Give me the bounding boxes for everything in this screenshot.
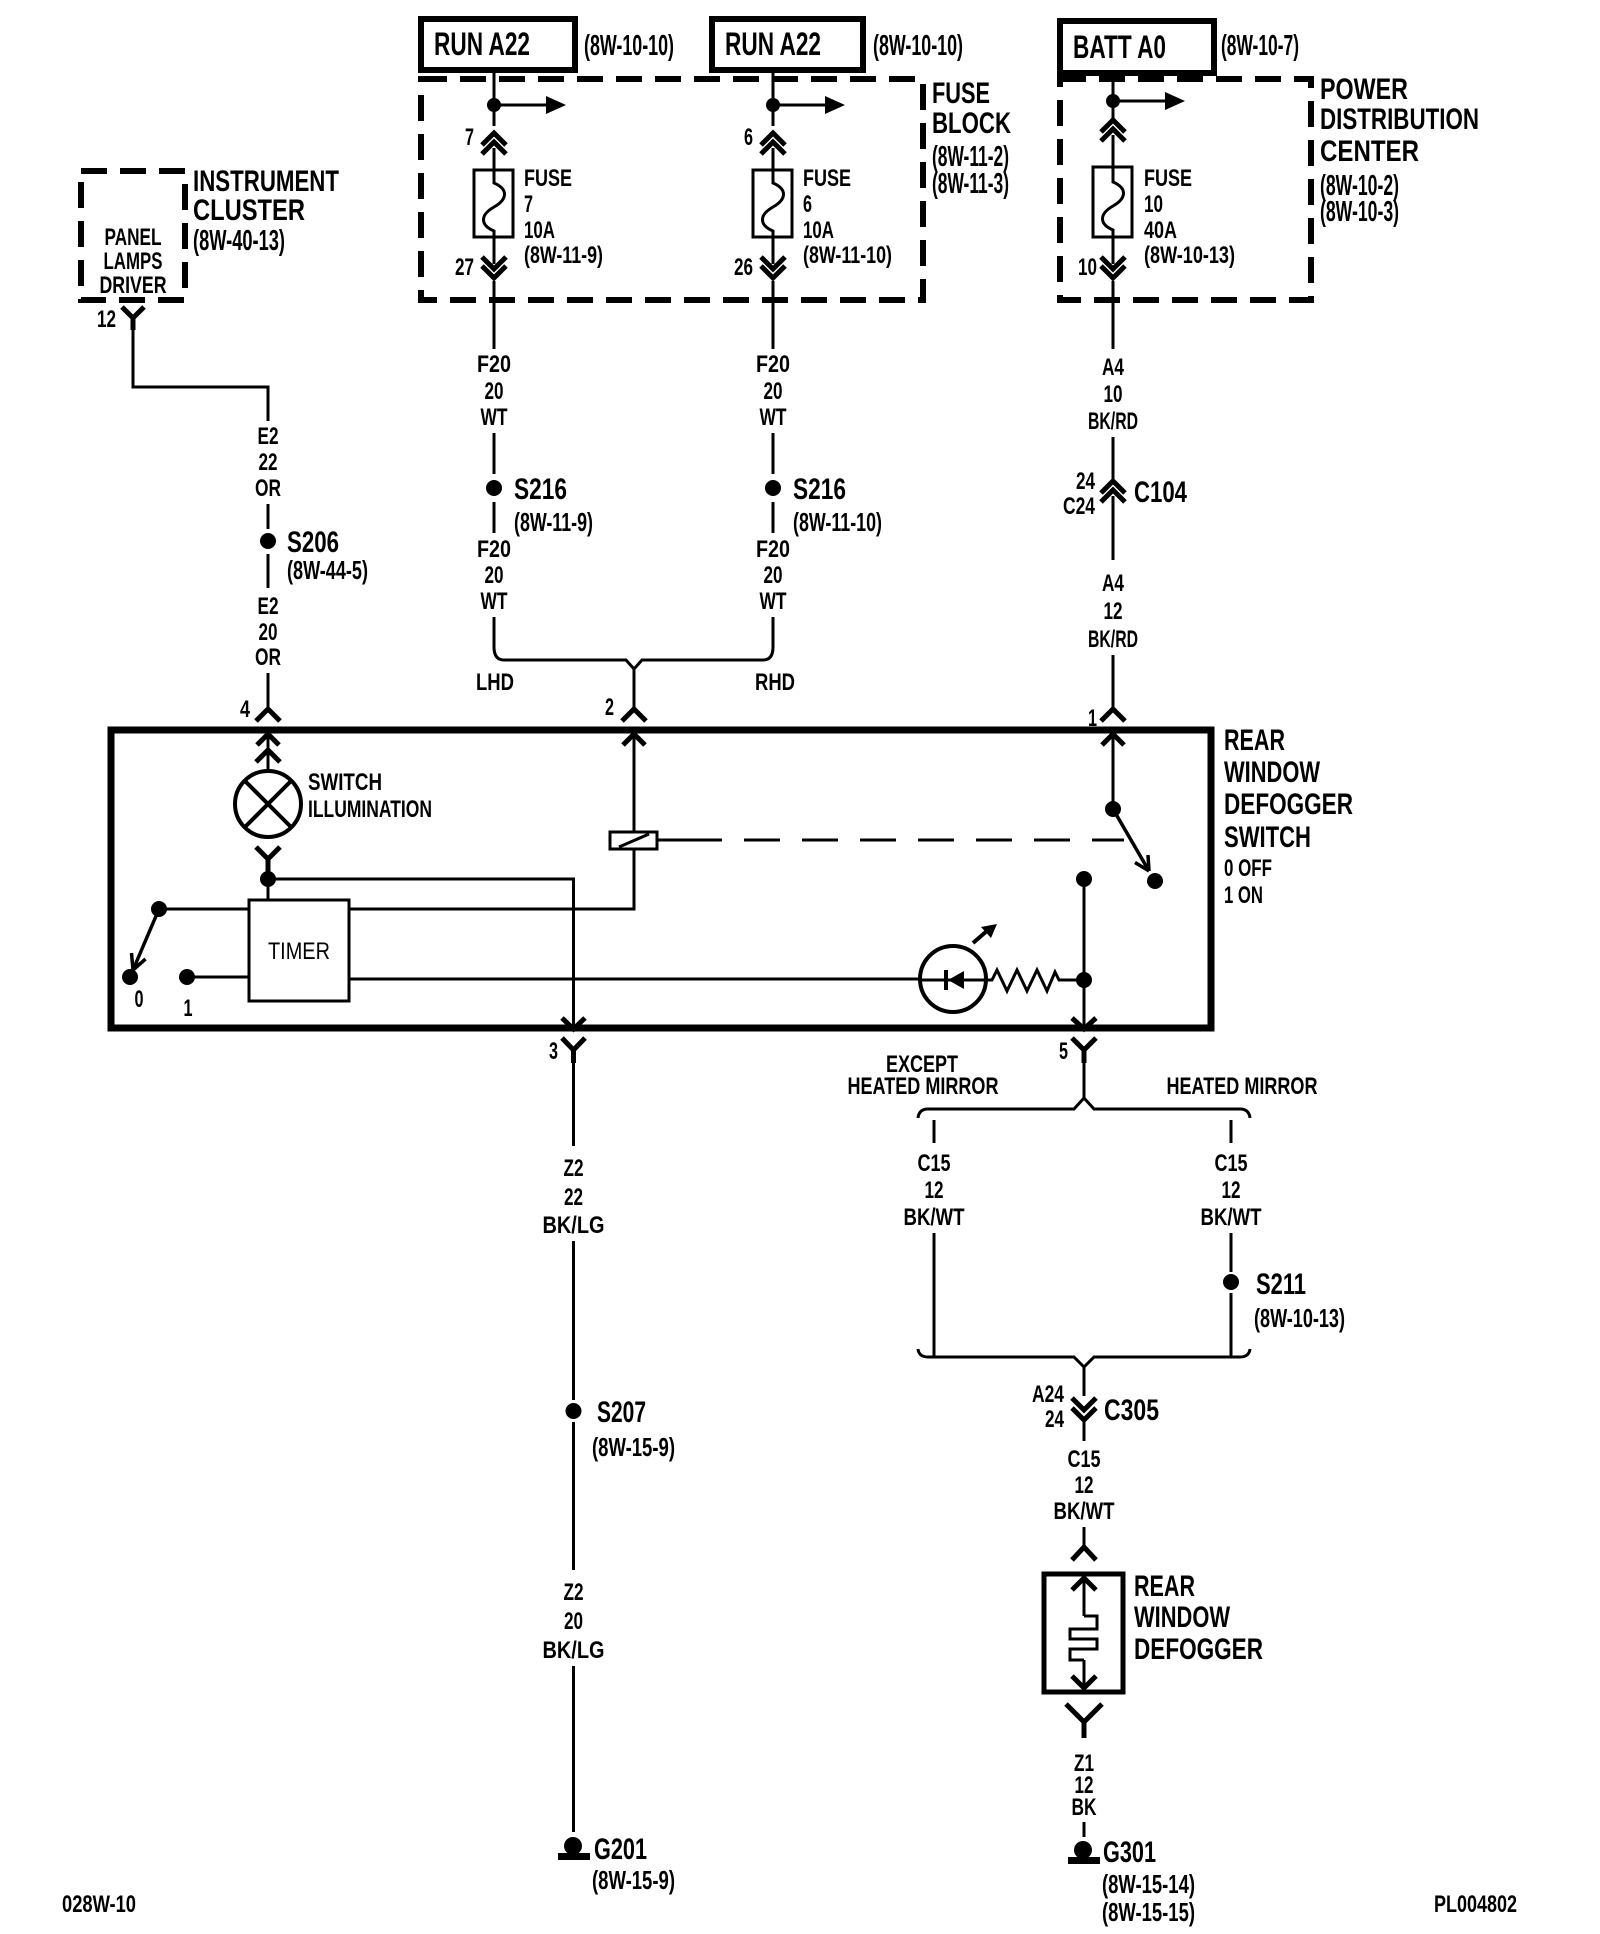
svg-text:Z2: Z2 xyxy=(564,1155,584,1182)
resistor xyxy=(986,970,1084,991)
svg-text:A4: A4 xyxy=(1102,570,1124,597)
connector chevrons pin 6 xyxy=(761,133,785,154)
svg-text:028W-10: 028W-10 xyxy=(62,1891,136,1918)
svg-text:WT: WT xyxy=(760,404,787,431)
defogger switch arm with arrowhead xyxy=(1113,809,1149,871)
svg-text:C104: C104 xyxy=(1134,476,1187,509)
svg-text:20: 20 xyxy=(485,562,504,589)
svg-text:TIMER: TIMER xyxy=(268,938,330,965)
svg-text:F20: F20 xyxy=(477,351,511,378)
wire toggle common to timer xyxy=(159,908,249,911)
svg-text:HEATED MIRROR: HEATED MIRROR xyxy=(1167,1073,1318,1100)
connector C104 xyxy=(1063,468,1187,520)
wire timer output to LED xyxy=(349,978,919,981)
dashed mechanical link to switch arm xyxy=(686,839,1124,842)
wire BATT A0 feed into PDC xyxy=(1112,73,1115,119)
net label A4 12 BK/RD xyxy=(1088,570,1138,653)
svg-text:4: 4 xyxy=(240,696,250,723)
toggle switch common node xyxy=(151,901,167,917)
svg-text:HEATED MIRROR: HEATED MIRROR xyxy=(848,1073,999,1100)
defogger switch contact 1 xyxy=(1147,873,1163,889)
defogger grid outlet arrow xyxy=(1072,1660,1096,1688)
svg-text:F20: F20 xyxy=(756,536,790,563)
wire F20 out of fuse block (left) xyxy=(493,281,496,349)
instrument cluster name label xyxy=(193,165,339,257)
ground G301 (8W-15-14)(8W-15-15) xyxy=(1068,1836,1195,1927)
svg-text:BK/WT: BK/WT xyxy=(1201,1204,1262,1231)
power distribution center name label xyxy=(1320,73,1479,228)
svg-text:0 OFF: 0 OFF xyxy=(1224,855,1272,882)
wire C104 to A4 label xyxy=(1112,496,1115,560)
wire RUN A22 right feed into fuse block xyxy=(772,70,775,126)
svg-text:FUSE: FUSE xyxy=(524,165,572,192)
connector chevrons above fuse 10 xyxy=(1101,120,1125,141)
wire to ground G201 xyxy=(572,1666,575,1832)
svg-text:RHD: RHD xyxy=(755,669,795,696)
connector chevrons pin 27 xyxy=(482,257,506,278)
svg-text:POWER: POWER xyxy=(1320,73,1408,106)
junction node resistor / pin 5 wire xyxy=(1076,972,1092,988)
svg-text:C15: C15 xyxy=(1068,1446,1101,1473)
wire below S216 right xyxy=(772,502,775,533)
svg-text:G201: G201 xyxy=(594,1833,647,1866)
svg-text:1 ON: 1 ON xyxy=(1224,882,1263,909)
wire F20 out of fuse block (right) xyxy=(772,281,775,349)
rear window defogger switch name label xyxy=(1224,724,1353,909)
svg-text:(8W-10-13): (8W-10-13) xyxy=(1254,1303,1345,1333)
svg-text:12: 12 xyxy=(97,306,116,333)
junction node under BATT A0 xyxy=(1106,94,1120,108)
svg-text:6: 6 xyxy=(744,124,753,151)
connector chevrons pin 7 xyxy=(482,133,506,154)
svg-text:FUSE: FUSE xyxy=(1144,165,1192,192)
svg-text:22: 22 xyxy=(564,1184,583,1211)
svg-text:BK/WT: BK/WT xyxy=(904,1204,965,1231)
svg-text:1: 1 xyxy=(184,995,193,1022)
svg-text:BK/LG: BK/LG xyxy=(543,1212,605,1239)
wire stub left branch xyxy=(933,1120,936,1143)
except heated mirror label xyxy=(848,1051,999,1100)
svg-text:10A: 10A xyxy=(524,217,555,244)
pin 5 connector (female Y below box edge) xyxy=(1072,1038,1096,1063)
svg-text:PL004802: PL004802 xyxy=(1434,1891,1517,1918)
svg-text:(8W-15-9): (8W-15-9) xyxy=(592,1865,675,1895)
svg-text:F20: F20 xyxy=(477,536,511,563)
svg-text:CLUSTER: CLUSTER xyxy=(193,194,305,227)
svg-text:(8W-15-9): (8W-15-9) xyxy=(592,1432,675,1462)
svg-text:G301: G301 xyxy=(1103,1836,1156,1869)
wire below S206 xyxy=(267,554,270,588)
svg-text:10: 10 xyxy=(1104,381,1123,408)
svg-text:(8W-10-3): (8W-10-3) xyxy=(1320,196,1399,228)
pin 2 connector (male below box edge) and wire to relay coil xyxy=(623,734,645,832)
connector C305 xyxy=(1032,1381,1159,1433)
svg-text:WT: WT xyxy=(481,404,508,431)
wire A4 out of PDC xyxy=(1112,281,1115,349)
svg-text:WT: WT xyxy=(760,588,787,615)
defogger grid inlet arrow xyxy=(1072,1578,1096,1616)
svg-text:DEFOGGER: DEFOGGER xyxy=(1224,788,1353,821)
wire pin 3 to Z2 label xyxy=(572,1063,575,1146)
svg-text:OR: OR xyxy=(255,475,281,502)
net label A4 10 BK/RD xyxy=(1088,354,1138,435)
toggle contact 0 xyxy=(122,969,138,985)
net label C15 12 BK/WT (right) xyxy=(1201,1150,1262,1231)
svg-text:(8W-11-9): (8W-11-9) xyxy=(524,242,603,269)
wire C305 to C15 label xyxy=(1083,1420,1086,1441)
svg-text:S207: S207 xyxy=(597,1396,646,1429)
svg-text:7: 7 xyxy=(465,124,474,151)
relay coil link stub xyxy=(657,839,686,842)
svg-text:C305: C305 xyxy=(1104,1394,1159,1427)
timer xyxy=(249,900,349,1001)
wire to splice S216 left xyxy=(493,433,496,474)
pin 1 connector (male below box edge) and wire to switch pivot xyxy=(1102,734,1124,803)
svg-text:27: 27 xyxy=(455,254,474,281)
svg-text:12: 12 xyxy=(1075,1472,1094,1499)
toggle contact 1 xyxy=(179,969,195,985)
wire brace to pin 2 xyxy=(633,669,636,709)
svg-text:10A: 10A xyxy=(803,217,834,244)
defogger switch pivot node xyxy=(1105,801,1121,817)
fuse 7 value label xyxy=(524,165,603,269)
wire from pin 12 to E2 net xyxy=(133,330,268,421)
wire right branch to splice S211 xyxy=(1230,1233,1233,1272)
svg-text:DEFOGGER: DEFOGGER xyxy=(1134,1633,1263,1666)
svg-text:(8W-15-15): (8W-15-15) xyxy=(1102,1897,1195,1927)
pin 4 connector (male below box edge) xyxy=(256,734,280,770)
svg-text:7: 7 xyxy=(524,191,533,218)
svg-text:BATT A0: BATT A0 xyxy=(1073,29,1166,65)
svg-text:40A: 40A xyxy=(1144,217,1177,244)
wire to splice S206 xyxy=(267,504,270,529)
wire contact 1 to timer xyxy=(187,976,249,979)
svg-text:3: 3 xyxy=(549,1038,558,1065)
svg-text:RUN A22: RUN A22 xyxy=(725,26,821,62)
svg-text:0: 0 xyxy=(135,986,144,1013)
fuse 10 (40A) xyxy=(1093,167,1132,237)
svg-text:(8W-11-9): (8W-11-9) xyxy=(514,507,593,537)
junction node under RUN A22 left xyxy=(487,98,501,112)
svg-text:FUSE: FUSE xyxy=(932,77,990,110)
switch illumination lamp xyxy=(235,771,301,837)
wire left branch to merge brace xyxy=(933,1233,936,1357)
power feed banner RUN A22 (right) xyxy=(712,19,863,70)
svg-text:10: 10 xyxy=(1078,254,1097,281)
power feed banner RUN A22 (left) xyxy=(421,19,575,70)
wire fuse 7 to chevrons xyxy=(493,237,496,264)
rear window defogger name label xyxy=(1134,1570,1263,1666)
wire to pin 1 xyxy=(1112,655,1115,709)
svg-text:BK/LG: BK/LG xyxy=(543,1637,605,1664)
svg-text:FUSE: FUSE xyxy=(803,165,851,192)
wire chevron to fuse 6 xyxy=(772,148,775,170)
net label Z2 22 BK/LG xyxy=(543,1155,605,1239)
power distribution center (dashed box) xyxy=(1060,79,1311,300)
svg-text:F20: F20 xyxy=(756,351,790,378)
svg-text:WINDOW: WINDOW xyxy=(1224,756,1320,789)
merge brace xyxy=(918,1349,1250,1367)
wire lamp junction to timer xyxy=(267,879,270,900)
instrument cluster (dashed box) xyxy=(81,171,185,300)
svg-text:12: 12 xyxy=(925,1177,944,1204)
svg-text:A4: A4 xyxy=(1102,354,1124,381)
svg-text:(8W-10-7): (8W-10-7) xyxy=(1221,30,1299,62)
svg-text:24: 24 xyxy=(1045,1406,1064,1433)
ground G201 (8W-15-9) xyxy=(558,1833,675,1895)
fuse 10 value label xyxy=(1144,165,1235,269)
LED indicator arrow xyxy=(973,924,997,943)
wire below S211 to merge brace xyxy=(1230,1293,1233,1357)
net label F20 20 WT (lower left) xyxy=(477,536,511,615)
toggle switch arm with arrowhead xyxy=(132,909,160,970)
svg-text:DISTRIBUTION: DISTRIBUTION xyxy=(1320,103,1479,136)
pin 12 connector (female Y) xyxy=(122,307,144,330)
net label Z1 12 BK xyxy=(1072,1750,1097,1821)
svg-text:PANEL: PANEL xyxy=(105,224,162,251)
splice S216 (8W-11-9) xyxy=(486,473,593,537)
svg-text:C24: C24 xyxy=(1063,493,1095,520)
LED indicator xyxy=(920,946,986,1012)
junction node under RUN A22 right xyxy=(766,98,780,112)
svg-text:OR: OR xyxy=(255,644,281,671)
wire RHD leg xyxy=(772,617,775,647)
svg-text:(8W-10-13): (8W-10-13) xyxy=(1144,242,1235,269)
wire to ground G301 xyxy=(1083,1822,1086,1837)
svg-text:20: 20 xyxy=(764,378,783,405)
net label E2 20 OR xyxy=(255,593,281,671)
svg-text:10: 10 xyxy=(1144,191,1163,218)
svg-text:LAMPS: LAMPS xyxy=(104,248,163,275)
svg-text:22: 22 xyxy=(259,449,278,476)
svg-text:5: 5 xyxy=(1059,1038,1068,1065)
svg-text:26: 26 xyxy=(734,254,753,281)
svg-text:REAR: REAR xyxy=(1224,724,1285,757)
svg-text:ILLUMINATION: ILLUMINATION xyxy=(308,796,432,823)
svg-text:CENTER: CENTER xyxy=(1320,135,1419,168)
wire below S216 left xyxy=(493,502,496,533)
pin 4 connector (female above box edge) xyxy=(256,709,280,721)
fuse block (dashed box) xyxy=(421,79,923,300)
wire pin 5 to split brace xyxy=(1083,1063,1086,1098)
net label Z2 20 BK/LG xyxy=(543,1579,605,1664)
svg-text:WINDOW: WINDOW xyxy=(1134,1601,1230,1634)
defogger inlet connector (female) xyxy=(1072,1547,1096,1560)
svg-text:(8W-11-3): (8W-11-3) xyxy=(932,168,1009,200)
svg-text:BLOCK: BLOCK xyxy=(932,107,1011,140)
svg-text:12: 12 xyxy=(1104,598,1123,625)
svg-text:E2: E2 xyxy=(258,593,279,620)
svg-text:LHD: LHD xyxy=(476,669,514,696)
wire switch output to pin 5 xyxy=(1083,879,1086,1028)
net label F20 20 WT (upper right) xyxy=(756,351,790,431)
svg-text:S211: S211 xyxy=(1256,1268,1306,1301)
svg-text:WT: WT xyxy=(481,588,508,615)
svg-text:2: 2 xyxy=(605,694,614,721)
wire chevron to fuse 10 xyxy=(1112,135,1115,167)
svg-text:BK/WT: BK/WT xyxy=(1054,1498,1115,1525)
net label F20 20 WT (lower right) xyxy=(756,536,790,615)
net label F20 20 WT (upper left) xyxy=(477,351,511,431)
wire stub right branch xyxy=(1230,1120,1233,1143)
LHD/RHD merge brace xyxy=(494,647,773,669)
svg-text:S216: S216 xyxy=(514,473,567,506)
wire fuse 6 to chevrons xyxy=(772,237,775,264)
fuse 6 value label xyxy=(803,165,892,269)
relay coil (crossed rectangle) xyxy=(610,832,657,849)
splice S207 (8W-15-9) xyxy=(566,1396,676,1462)
switch illumination label xyxy=(308,769,432,823)
wire timer output to relay coil xyxy=(349,849,634,909)
svg-text:20: 20 xyxy=(764,562,783,589)
svg-text:24: 24 xyxy=(1076,468,1095,495)
defogger outlet connector (female Y) xyxy=(1066,1704,1102,1738)
fuse 6 (10A) xyxy=(753,170,792,237)
svg-text:(8W-40-13): (8W-40-13) xyxy=(193,225,285,257)
net label C15 12 BK/WT (left) xyxy=(904,1150,965,1231)
connector chevrons pin 26 xyxy=(761,257,785,278)
wire to connector C104 xyxy=(1112,437,1115,481)
svg-text:BK: BK xyxy=(1072,1794,1097,1821)
svg-text:S216: S216 xyxy=(793,473,846,506)
svg-text:REAR: REAR xyxy=(1134,1570,1195,1603)
fuse block name label xyxy=(932,77,1011,200)
svg-text:DRIVER: DRIVER xyxy=(100,272,167,299)
svg-text:20: 20 xyxy=(564,1608,583,1635)
svg-text:(8W-44-5): (8W-44-5) xyxy=(287,555,368,585)
pin 3 connector (male arrow above box edge) xyxy=(562,1018,585,1029)
pin 2 connector (female above box edge) xyxy=(622,709,646,721)
fuse 7 (10A) xyxy=(474,170,513,237)
splice S211 (8W-10-13) xyxy=(1223,1268,1345,1333)
svg-text:C15: C15 xyxy=(1215,1150,1248,1177)
svg-text:(8W-11-10): (8W-11-10) xyxy=(793,507,882,537)
net label C15 12 BK/WT (middle) xyxy=(1054,1446,1115,1525)
switch output node xyxy=(1076,871,1092,887)
svg-text:Z2: Z2 xyxy=(564,1579,584,1606)
rear window defogger (box) xyxy=(1044,1574,1123,1692)
svg-text:12: 12 xyxy=(1222,1177,1241,1204)
splice S206 (8W-44-5) xyxy=(260,526,368,585)
splice S216 (8W-11-10) xyxy=(765,473,882,537)
wire chevron to fuse 7 xyxy=(493,148,496,170)
svg-text:20: 20 xyxy=(485,378,504,405)
wire fuse 10 to chevrons xyxy=(1112,237,1115,264)
wire below S207 xyxy=(572,1422,575,1570)
svg-text:6: 6 xyxy=(803,191,812,218)
wire brace to connector C305 xyxy=(1083,1367,1086,1396)
rear window defogger switch (box) xyxy=(111,730,1211,1028)
feed-through arrow (PDC) xyxy=(1113,92,1185,110)
wire to splice S207 xyxy=(572,1241,575,1400)
svg-text:20: 20 xyxy=(259,619,278,646)
defogger heating element xyxy=(1070,1616,1097,1660)
svg-text:A24: A24 xyxy=(1032,1381,1064,1408)
svg-text:C15: C15 xyxy=(918,1150,951,1177)
wire to splice S216 right xyxy=(772,433,775,474)
svg-text:BK/RD: BK/RD xyxy=(1088,408,1138,435)
svg-text:(8W-10-10): (8W-10-10) xyxy=(584,30,674,62)
wire to defogger connector xyxy=(1083,1527,1086,1546)
svg-text:(8W-10-10): (8W-10-10) xyxy=(873,30,963,62)
feed-through arrow (left fuse) xyxy=(494,96,566,114)
svg-text:E2: E2 xyxy=(258,423,279,450)
svg-text:(8W-11-10): (8W-11-10) xyxy=(803,242,892,269)
lamp lower connector (female Y) xyxy=(256,847,280,872)
wire LHD leg xyxy=(493,617,496,647)
battery feed banner BATT A0 xyxy=(1060,21,1214,73)
wire RUN A22 left feed into fuse block xyxy=(493,70,496,126)
junction node below lamp xyxy=(260,871,276,887)
net label E2 22 OR xyxy=(255,423,281,502)
connector chevrons pin 10 xyxy=(1101,257,1125,278)
svg-text:SWITCH: SWITCH xyxy=(308,769,382,796)
svg-text:(8W-15-14): (8W-15-14) xyxy=(1102,1869,1195,1899)
split brace xyxy=(918,1098,1250,1118)
pin 1 connector (female above box edge) xyxy=(1101,709,1125,721)
wire to pin 4 xyxy=(267,673,270,709)
wire lamp junction to pin 3 xyxy=(268,879,574,1028)
svg-text:SWITCH: SWITCH xyxy=(1224,821,1311,854)
feed-through arrow (right fuse) xyxy=(773,96,845,114)
pin 5 connector (male arrow above box edge) xyxy=(1072,1018,1096,1029)
pin 3 connector (female Y below box edge) xyxy=(562,1038,585,1063)
svg-text:BK/RD: BK/RD xyxy=(1088,626,1138,653)
svg-text:RUN A22: RUN A22 xyxy=(434,26,530,62)
